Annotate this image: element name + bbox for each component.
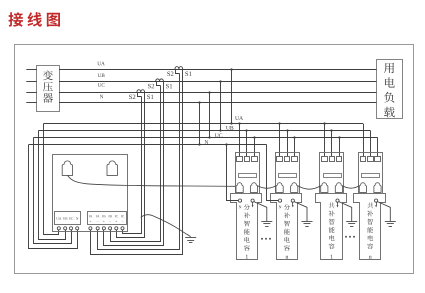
phase line UB bbox=[59, 81, 377, 83]
bus N bbox=[29, 144, 267, 146]
module 2 ground symbol bbox=[302, 221, 313, 223]
transformer box 变压器 bbox=[37, 66, 60, 112]
border frame bbox=[15, 45, 414, 274]
wire bus to controller terminal x=77.2 bbox=[29, 145, 78, 249]
module 1 ground wire bbox=[254, 202, 267, 222]
transformer input stubs bbox=[26, 69, 37, 71]
module 1 top box bbox=[236, 153, 260, 194]
module 4 earth terminal circle bbox=[375, 199, 378, 202]
module 2 top box bbox=[276, 153, 300, 194]
load box 用电负载 bbox=[377, 60, 403, 119]
CT on phase UC (S2/S1) bbox=[137, 90, 145, 92]
ground symbol (controller side) bbox=[185, 237, 196, 239]
module 3 connector left bbox=[321, 183, 328, 193]
tap UA phase to bus bbox=[231, 69, 233, 124]
module 4 top box bbox=[359, 153, 383, 194]
CT UA secondary wire S1 to terminal bbox=[91, 70, 183, 255]
module 3 ground wire bbox=[339, 202, 352, 222]
module 2 terminal squares bbox=[277, 157, 283, 162]
module 1 phase drop 1 bbox=[239, 124, 241, 157]
phase line N bbox=[59, 102, 377, 104]
controller box bbox=[53, 155, 128, 232]
module 3 connector right bbox=[335, 183, 342, 193]
module 2 connector left bbox=[276, 183, 283, 193]
ellipsis between module1 and module2 bbox=[261, 238, 263, 240]
bus UA bbox=[44, 123, 364, 125]
CT on phase UA (S2/S1) bbox=[175, 67, 183, 69]
module 2 N feed wire bbox=[267, 145, 279, 201]
module 3 terminal squares bbox=[322, 157, 328, 162]
module 3 earth terminal circle bbox=[336, 199, 339, 202]
module 1 body bbox=[231, 194, 262, 260]
module 3 phase drop 2 bbox=[331, 131, 333, 157]
title 接线图 bbox=[8, 12, 23, 26]
module 1 display slot bbox=[239, 174, 257, 178]
ellipsis between module3 and module4 bbox=[345, 236, 347, 238]
module 2 display slot bbox=[279, 174, 297, 178]
module 3 top box bbox=[320, 153, 344, 194]
tap UC phase to bus bbox=[209, 92, 211, 137]
module 1 connector right bbox=[250, 183, 257, 193]
module 2 phase drop 3 bbox=[294, 138, 296, 157]
controller current terminal strip IA IB IC bbox=[88, 212, 127, 225]
module 3 phase drop 3 bbox=[339, 138, 341, 157]
bus UB bbox=[38, 130, 370, 132]
module 4 body bbox=[354, 194, 386, 260]
module 2 phase drop 2 bbox=[287, 131, 289, 157]
phase line UA bbox=[59, 69, 377, 71]
module 4 phase drop 2 bbox=[370, 131, 372, 157]
controller terminal circles bbox=[57, 227, 60, 230]
module 3 phase drop 1 bbox=[324, 124, 326, 157]
controller connector left bbox=[62, 161, 72, 176]
module 4 label text bbox=[367, 202, 373, 208]
CT UA secondary wire S2 to terminal bbox=[98, 74, 180, 250]
CT common ground wire bbox=[141, 215, 191, 237]
CT on phase UB (S2/S1) bbox=[156, 79, 164, 81]
bus labels bbox=[235, 116, 239, 120]
wire bus to controller terminal x=65.2 bbox=[39, 131, 66, 240]
module 2 body bbox=[271, 194, 302, 260]
tap N phase to bus bbox=[199, 102, 201, 144]
module 1 phase drop 3 bbox=[254, 138, 256, 157]
comm cable module2-module3 bbox=[298, 186, 321, 189]
wire bus to controller terminal x=58.8 bbox=[44, 124, 59, 235]
module 3 earth mark bbox=[337, 202, 339, 205]
wire bus to controller terminal x=71.0 bbox=[34, 138, 72, 244]
comm cable module1-module2 bbox=[258, 186, 276, 189]
module 1 ground symbol bbox=[261, 221, 272, 223]
controller connector right bbox=[107, 161, 118, 176]
controller voltage terminal strip UA UB UC N bbox=[55, 212, 81, 225]
module 1 N feed wire bbox=[227, 145, 239, 201]
CT UB secondary wire S1 to terminal bbox=[104, 82, 164, 246]
phase line labels bbox=[97, 62, 101, 65]
module 4 phase drop 3 bbox=[377, 138, 379, 157]
phase line UC bbox=[59, 92, 377, 94]
module 1 N terminal circle bbox=[238, 199, 241, 202]
module 4 connector left bbox=[359, 183, 366, 193]
tap UB phase to bus bbox=[220, 81, 222, 130]
module 3 display slot bbox=[324, 174, 342, 178]
CT UC secondary wire S1 to terminal bbox=[117, 93, 145, 238]
module 4 ground wire bbox=[377, 202, 390, 222]
comm cable module3-module4 bbox=[343, 186, 360, 188]
module 3 label text bbox=[329, 202, 335, 208]
module 1 phase drop 2 bbox=[246, 131, 248, 157]
module 4 phase drop 1 bbox=[363, 124, 365, 157]
bus UC bbox=[33, 137, 377, 139]
module 4 connector right bbox=[374, 183, 381, 193]
module 1 terminal squares bbox=[237, 157, 243, 162]
module 1 connector left bbox=[236, 183, 243, 193]
module 2 phase drop 1 bbox=[279, 124, 281, 157]
module 3 ground symbol bbox=[346, 221, 357, 223]
CT UC secondary wire S2 to terminal bbox=[123, 97, 142, 234]
module 2 label text bbox=[284, 204, 290, 210]
module 2 N terminal circle bbox=[278, 199, 281, 202]
module 1 earth terminal circle bbox=[251, 199, 254, 202]
module 2 ground wire bbox=[294, 202, 307, 222]
module 2 earth terminal circle bbox=[291, 199, 294, 202]
module 2 connector right bbox=[291, 183, 298, 193]
module 3 body bbox=[316, 194, 347, 260]
module 4 terminal squares bbox=[361, 157, 366, 162]
module 1 label text bbox=[244, 204, 250, 210]
module 4 ground symbol bbox=[385, 221, 396, 223]
module 4 earth mark bbox=[376, 202, 378, 205]
module 1 earth mark bbox=[252, 202, 254, 205]
communication cable controller to module 1 bbox=[68, 175, 236, 186]
CT UB secondary wire S2 to terminal bbox=[111, 86, 161, 242]
module 2 earth mark bbox=[292, 202, 294, 205]
module 4 display slot bbox=[362, 174, 380, 178]
